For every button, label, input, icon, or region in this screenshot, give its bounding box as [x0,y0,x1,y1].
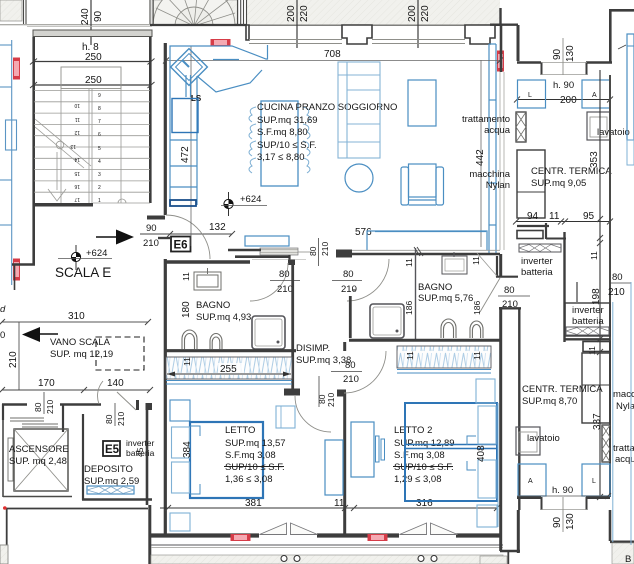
bottom window recess [517,496,541,499]
svg-text:inverter: inverter [572,305,604,316]
stair treads [34,67,150,203]
bagno1 bidet [210,334,222,350]
entry arrow right [96,236,118,238]
svg-text:130: 130 [565,513,576,530]
A appliance bottom [518,464,546,496]
svg-text:E5: E5 [105,444,120,456]
bottom right walls [517,510,520,553]
svg-text:210: 210 [277,284,293,295]
svg-text:batteria: batteria [521,267,553,278]
bagno2 bidet [470,321,483,338]
svg-text:210: 210 [326,393,336,407]
dim 210 vertical vano scala [18,322,20,390]
stair bottom wall [33,203,93,207]
svg-text:11: 11 [549,211,560,222]
X shaft left CT [516,112,526,142]
svg-text:2: 2 [98,185,101,191]
shaft niche below wall [442,256,467,274]
svg-text:3,17 ≤ 8,80: 3,17 ≤ 8,80 [257,152,304,163]
svg-text:lavatoio: lavatoio [527,433,560,444]
svg-text:80: 80 [504,285,515,296]
svg-text:SUP/10 ≤ S.F.: SUP/10 ≤ S.F. [394,462,454,473]
wall corner below stair left [12,263,35,265]
E5 label [103,441,120,456]
letto1 door arc [295,396,331,432]
svg-text:L: L [528,92,532,99]
svg-text:CUCINA PRANZO SOGGIORNO: CUCINA PRANZO SOGGIORNO [257,102,397,113]
svg-text:SUP/10 ≤ S.F.: SUP/10 ≤ S.F. [225,462,285,473]
svg-text:80: 80 [612,272,623,283]
spiral stair fan [153,0,235,67]
svg-text:210: 210 [343,374,359,385]
letto2 bedside top right [476,379,495,403]
svg-text:140: 140 [107,378,124,389]
svg-text:11: 11 [589,251,599,260]
letto1 bedside table left [170,400,190,421]
svg-text:SUP.mq 8,70: SUP.mq 8,70 [522,396,577,407]
letto2 pillows [478,406,496,444]
svg-text:80: 80 [343,269,354,280]
svg-text:472: 472 [180,146,191,163]
svg-text:210: 210 [143,238,159,249]
svg-text:180: 180 [181,301,192,318]
bagno1 shower [252,316,285,349]
svg-text:80: 80 [308,246,318,256]
wall stub left of E6 [158,237,170,239]
svg-text:CENTR. TERMICA: CENTR. TERMICA [522,384,603,395]
svg-text:batteria: batteria [572,316,604,327]
bagno2 bottom wall [349,339,502,342]
letto1 pillows [172,427,190,458]
svg-text:442: 442 [475,149,486,166]
ascensore cabin [14,429,68,491]
svg-text:200: 200 [286,5,297,22]
lavatoio 2 fixture [516,427,540,455]
corridor wall segments [2,403,27,406]
svg-text:+624: +624 [240,194,261,205]
BAGNO2 [349,296,352,338]
boiler 2 [582,353,610,423]
svg-text:80: 80 [33,402,43,412]
bottom-left room walls [6,508,148,510]
terrace slab lines [151,544,503,546]
long vertical dim line right [599,70,601,497]
arrow left vano scala [38,333,58,335]
svg-text:lavatoio: lavatoio [597,127,630,138]
svg-text:SUP. mq 2,48: SUP. mq 2,48 [9,456,67,467]
french door triangles letto1 [260,523,458,535]
svg-text:10: 10 [74,102,80,108]
exterior hatched area top-left [0,0,22,21]
disimp left wall lower + foot [291,351,294,390]
right column X shaft [602,425,610,462]
stair block top band [33,30,152,37]
dimension 240/90 top-left [90,0,92,45]
dimension 200/220 right pair [417,0,419,48]
kitchen corner sink diamond [171,49,208,86]
door pivots circles [281,556,437,562]
CENTR. TERMICA top room [517,25,520,61]
E6 label [171,237,191,252]
gray sill threshold [260,248,298,255]
80/210 far right fraction line [610,282,631,284]
window lines CT top [541,62,587,64]
svg-text:6: 6 [98,132,101,138]
svg-text:186: 186 [404,301,414,315]
svg-text:408: 408 [476,445,487,462]
A appliance [582,80,610,108]
inverter niche top [517,225,549,227]
svg-text:210: 210 [608,287,625,298]
dim 472 vertical [190,46,192,246]
deposito door arc [98,381,103,404]
90/130 bottom dim [562,497,564,532]
wardrobe band letto2 [397,346,491,368]
svg-text:130: 130 [565,45,576,62]
svg-text:A: A [528,478,533,485]
svg-text:inverter: inverter [126,438,155,448]
letto2 beds [405,403,497,501]
apartment left wall [164,43,167,215]
svg-text:95: 95 [583,211,595,222]
svg-text:1,36 ≤ 3,08: 1,36 ≤ 3,08 [225,474,272,485]
living level marker +624 [221,192,267,216]
letto1 wardrobe right [325,440,343,495]
svg-text:310: 310 [68,311,85,322]
svg-text:90: 90 [552,48,563,60]
svg-text:E6: E6 [174,240,188,252]
svg-text:BAGNO: BAGNO [196,300,230,311]
svg-text:Nylan: Nylan [486,180,510,191]
L appliance [518,80,546,108]
blue bench at E6 [245,236,289,246]
svg-text:SUP.mq 5,76: SUP.mq 5,76 [418,293,473,304]
letto2 right blue line [497,403,499,527]
svg-text:SUP.mq 2,59: SUP.mq 2,59 [84,476,139,487]
ascensore left wall [2,420,4,497]
wall right of inverter niche [563,232,565,342]
svg-text:11: 11 [471,256,481,265]
chairs left [249,107,310,173]
svg-text:0: 0 [0,330,5,341]
boiler CT [517,150,545,218]
step below [583,342,610,352]
svg-text:220: 220 [420,5,431,22]
svg-text:80: 80 [345,360,356,371]
svg-text:384: 384 [182,441,193,458]
svg-text:186: 186 [472,301,482,315]
bagno2 north wall [352,253,500,256]
kitchen counter blue outline [170,45,268,205]
living top wall piers [246,25,495,44]
ascensore sliding doors top [10,418,58,427]
svg-text:11: 11 [405,351,415,360]
wardrobe band bagno1/letto1 [166,357,292,379]
svg-text:170: 170 [38,378,55,389]
desk [351,422,374,477]
letto2 door arc [344,351,386,393]
90/130 top right dim [562,38,564,75]
red marker right wall living [498,51,504,71]
svg-text:SUP.mq 12,89: SUP.mq 12,89 [394,438,455,449]
svg-text:macchina: macchina [469,169,510,180]
bagno1 door arc [250,263,288,301]
window double lines top [249,40,465,44]
svg-text:SUP.mq 9,05: SUP.mq 9,05 [531,178,586,189]
svg-text:80: 80 [279,269,290,280]
svg-text:708: 708 [324,49,341,60]
svg-text:90: 90 [146,223,157,234]
letto2 right wall [499,254,502,278]
svg-text:11: 11 [181,272,191,281]
left neighbour unit blue fragments [0,40,17,285]
deposito wall right stub [136,400,139,410]
svg-text:132: 132 [209,222,226,233]
lavatoio CT fixture [587,112,610,140]
dashed zone vano scala [96,337,144,370]
disimp right wall upper [291,262,294,351]
letto1 bedside table right [276,406,295,428]
svg-text:80: 80 [104,414,114,424]
sofa [338,62,380,158]
bottom wall segments [151,533,259,537]
svg-text:12: 12 [74,129,80,135]
stair step numbers right flight [70,93,101,204]
svg-text:255: 255 [220,364,237,375]
svg-text:B: B [625,554,631,564]
svg-text:200: 200 [560,95,577,106]
svg-text:14: 14 [74,156,80,162]
svg-text:acqua: acqua [484,125,511,136]
svg-text:LETTO: LETTO [225,425,255,436]
svg-text:337: 337 [592,413,603,430]
svg-text:inverter: inverter [521,256,553,267]
svg-text:353: 353 [589,151,600,168]
terrace hatched band [151,555,503,564]
right wall long [609,75,611,497]
svg-text:316: 316 [416,498,433,509]
round table [345,164,373,192]
svg-text:11: 11 [404,258,414,267]
svg-text:BAGNO: BAGNO [418,282,452,293]
stairwell side walls double lines [24,0,247,25]
L appliance bottom [582,464,610,496]
svg-text:DEPOSITO: DEPOSITO [84,464,133,475]
svg-text:SUP.mq 31,69: SUP.mq 31,69 [257,115,318,126]
svg-text:240: 240 [80,8,91,25]
living right wall upper [500,25,503,72]
bagno1 bottom wall [165,349,296,352]
svg-text:210: 210 [45,400,55,414]
bagno2 shower [370,304,404,338]
svg-text:1,29 ≤ 3,08: 1,29 ≤ 3,08 [394,474,441,485]
svg-text:8: 8 [98,106,101,112]
stair left wall [32,37,35,264]
spiral stair block background [152,0,238,24]
svg-text:trattamento: trattamento [462,114,510,125]
red marker top wall kitchen [211,40,230,46]
svg-text:11: 11 [75,116,80,122]
svg-text:+624: +624 [86,248,107,259]
svg-text:SUP. mq 12,19: SUP. mq 12,19 [50,349,113,360]
svg-text:220: 220 [299,5,310,22]
svg-text:S.F.mq 3,08: S.F.mq 3,08 [225,450,276,461]
svg-text:381: 381 [245,498,262,509]
svg-text:9: 9 [98,93,101,99]
svg-text:210: 210 [116,412,126,426]
right edge blue lines [612,302,614,542]
svg-text:11: 11 [182,357,192,366]
bagno1 wc [182,330,197,349]
dim 255 [218,363,244,373]
svg-text:SUP.mq 13,57: SUP.mq 13,57 [225,438,286,449]
198 label vertical wall piece [576,282,578,302]
bagno1 top wall [165,260,250,263]
living bottom wall left part [228,249,261,252]
deposito blue shelf [87,486,134,494]
right edge blue boxes top [627,34,634,140]
living right wall window thin lines [499,72,501,250]
bagno2 wc [441,319,456,338]
svg-text:DISIMP.: DISIMP. [296,343,330,354]
stair right wall [149,37,152,203]
red window marker left top [14,58,20,79]
bagno1 sink [194,268,221,290]
svg-text:1: 1 [98,198,101,204]
SCALA E level marker [58,245,112,270]
door arc into bagno2 [347,259,389,301]
deposito bottom wall [82,498,152,500]
svg-text:17: 17 [74,196,80,202]
dim 442 vertical [480,60,482,247]
svg-text:SUP/10 ≤ S.F.: SUP/10 ≤ S.F. [257,140,317,151]
svg-text:16: 16 [74,183,80,189]
svg-text:45: 45 [135,447,145,457]
top right corner wall of living [495,24,501,26]
exterior hatched area above living room [246,0,500,25]
svg-text:d: d [0,304,6,315]
svg-text:5: 5 [98,146,101,152]
wall lines top [0,24,150,26]
svg-text:SUP.mq 3,38: SUP.mq 3,38 [296,355,351,366]
svg-text:4: 4 [98,159,101,165]
svg-text:11: 11 [472,351,482,360]
svg-text:LETTO 2: LETTO 2 [394,425,432,436]
svg-text:94: 94 [527,211,539,222]
kitchen counter dark cap [170,200,196,206]
svg-text:S.F.mq 8,80: S.F.mq 8,80 [257,127,308,138]
letto2 bench below bed [477,505,497,527]
shaft closing wall + CT2 left wall [499,307,521,309]
armchair [401,164,444,205]
red window marker left middle [14,259,20,280]
svg-text:VANO SCALA: VANO SCALA [50,337,111,348]
red markers bottom [231,535,250,541]
svg-text:SCALA E: SCALA E [55,265,111,280]
svg-text:A: A [592,92,597,99]
CT door diagonal [480,278,500,312]
letto1/letto2 divider wall [343,342,346,351]
dimension 200/220 left pair [296,0,298,48]
dim line y508 [160,507,497,509]
svg-text:210: 210 [8,351,19,368]
svg-text:3: 3 [98,172,101,178]
svg-text:ASCENSORE: ASCENSORE [9,444,69,455]
svg-text:90: 90 [552,516,563,528]
svg-text:h. 90: h. 90 [552,485,573,496]
svg-text:90: 90 [93,10,104,22]
svg-text:h. 90: h. 90 [553,80,574,91]
svg-text:576: 576 [355,227,372,238]
svg-text:SUP.mq 4,93: SUP.mq 4,93 [196,312,251,323]
coffee table [408,80,436,126]
blue sliding glass right [489,44,496,254]
svg-text:15: 15 [74,170,80,176]
svg-text:11: 11 [334,498,345,509]
letto1 bed [190,422,263,498]
E6 entry door arc [166,215,210,259]
svg-text:S.F.mq 3,08: S.F.mq 3,08 [394,450,445,461]
dining table [261,101,298,186]
svg-text:13: 13 [70,143,76,149]
svg-text:7: 7 [98,119,101,125]
svg-text:200: 200 [407,5,418,22]
wall block right of disimp doorway [336,250,352,258]
wall foot right of letto1 door [337,390,346,397]
wall stub between stair and living entry [147,216,165,220]
svg-text:210: 210 [320,242,330,256]
stair landing box [61,67,121,89]
kitchen stove [172,99,198,133]
svg-text:L: L [592,478,596,485]
bagno2 partition [415,248,417,340]
